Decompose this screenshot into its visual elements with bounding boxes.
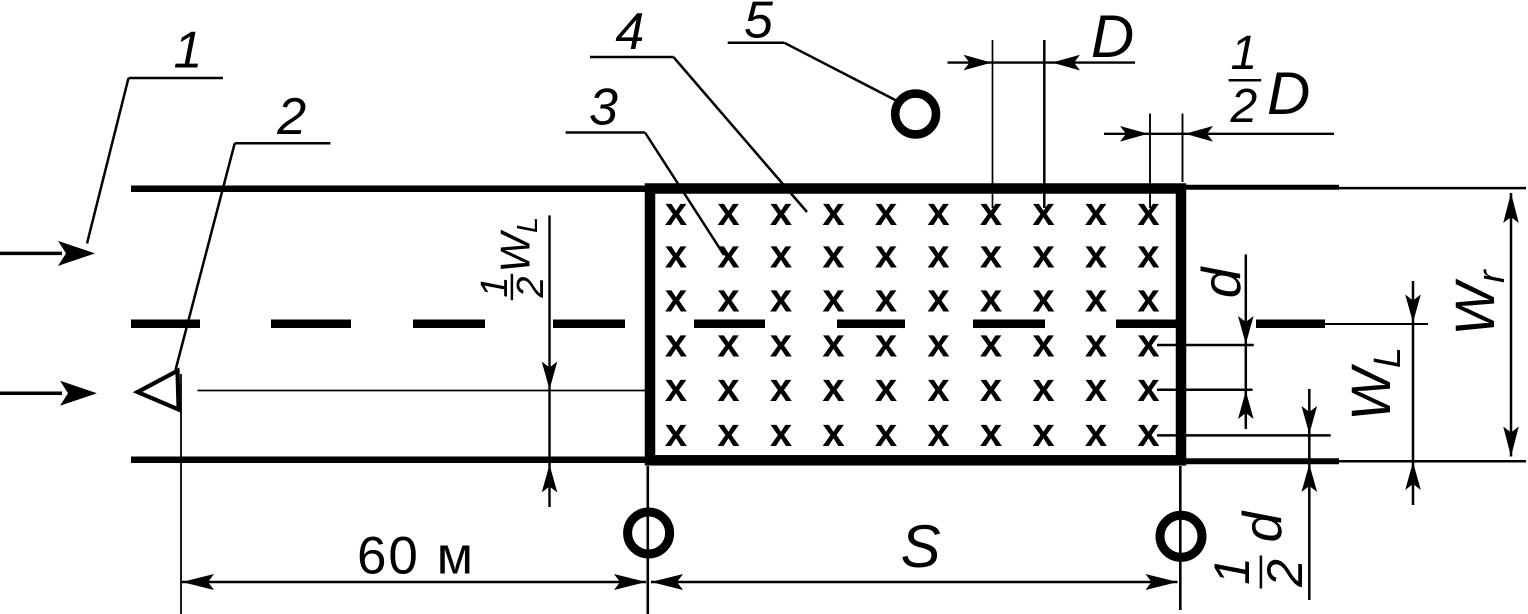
svg-text:x: x [770,233,792,277]
svg-text:x: x [980,411,1002,455]
svg-text:x: x [927,277,949,321]
dimension S line with arrows [651,574,1178,590]
svg-text:x: x [1032,411,1054,455]
svg-text:x: x [1085,411,1107,455]
svg-text:d: d [1190,265,1252,298]
svg-text:4: 4 [615,3,644,61]
svg-text:x: x [1032,366,1054,410]
svg-text:x: x [1137,190,1159,234]
svg-text:x: x [1137,322,1159,366]
dimension WL line with arrows [1405,281,1421,505]
svg-text:x: x [1137,233,1159,277]
svg-text:x: x [822,366,844,410]
callout 3 (measurement point) [566,79,724,255]
svg-text:x: x [1085,366,1107,410]
observer sight line [198,390,649,392]
dimension 1/2 WL line with arrows [542,215,558,507]
svg-text:x: x [927,366,949,410]
svg-text:x: x [875,233,897,277]
dimension 1/2 WL label [474,217,552,300]
luminaire circle (top) [895,94,936,135]
svg-text:1: 1 [1230,27,1257,80]
road top edge (left segment) [131,186,653,193]
dimension D label [1091,3,1134,70]
svg-text:2: 2 [276,88,306,146]
svg-text:x: x [1085,190,1107,234]
dimension 1/2 D line with arrows [1104,126,1334,142]
svg-text:x: x [665,411,687,455]
luminaire circle (bottom right) [1160,515,1202,557]
svg-text:1: 1 [1204,557,1260,585]
svg-text:x: x [980,190,1002,234]
svg-text:x: x [770,366,792,410]
extension line through bottom-right luminaire [1179,466,1182,610]
svg-text:D: D [1091,3,1134,70]
svg-text:x: x [1085,277,1107,321]
traffic direction arrow (lane 1) [0,241,95,266]
svg-text:1: 1 [174,22,203,80]
grid of measurement points (x marks) [665,190,1160,455]
dimension d line with arrows [1238,254,1254,429]
svg-text:x: x [665,190,687,234]
svg-text:2: 2 [1257,559,1313,588]
svg-text:x: x [927,233,949,277]
svg-text:x: x [770,322,792,366]
luminaire circle (bottom left) [628,512,670,554]
svg-text:x: x [717,277,739,321]
svg-text:x: x [875,277,897,321]
dimension WL label [1339,347,1409,421]
dimension Wr label [1443,269,1513,336]
svg-text:x: x [875,411,897,455]
svg-text:x: x [875,190,897,234]
svg-text:x: x [980,322,1002,366]
svg-text:x: x [927,411,949,455]
dimension d label [1190,265,1252,298]
callout 4 (measurement field) [590,3,807,212]
road bottom edge (left segment) [131,457,653,464]
svg-text:d: d [1231,510,1293,543]
svg-text:x: x [1085,233,1107,277]
svg-text:x: x [927,322,949,366]
svg-text:x: x [875,322,897,366]
dimension S label [901,513,941,580]
svg-text:x: x [717,233,739,277]
road bottom edge (right segment) [1180,458,1526,464]
svg-text:x: x [1137,366,1159,410]
road centerline (dashed lane marking) [131,320,1428,329]
svg-text:2: 2 [1229,80,1257,133]
svg-text:x: x [822,277,844,321]
svg-text:60 м: 60 м [357,527,475,586]
extension line through bottom-left luminaire [646,466,649,614]
svg-text:x: x [665,233,687,277]
svg-text:x: x [717,190,739,234]
dimension 60 m label [357,527,475,586]
svg-text:x: x [770,277,792,321]
svg-text:x: x [717,366,739,410]
callout 1 (traffic direction) [87,22,223,244]
dimension D extension lines [993,40,1045,208]
measurement field boundary [650,189,1181,461]
svg-text:x: x [1137,277,1159,321]
svg-text:x: x [980,277,1002,321]
dimension Wr line with arrows [1503,193,1519,457]
svg-text:x: x [927,190,949,234]
svg-text:x: x [980,366,1002,410]
dimension 1/2 d line with arrows [1302,389,1318,600]
svg-text:x: x [1137,411,1159,455]
svg-text:S: S [901,513,941,580]
svg-text:D: D [1267,60,1310,127]
svg-text:x: x [717,411,739,455]
extension lines from grid rows 4,5,6 [1157,345,1331,435]
svg-text:x: x [822,233,844,277]
svg-text:x: x [770,411,792,455]
svg-text:x: x [665,366,687,410]
svg-text:5: 5 [744,0,774,50]
svg-text:3: 3 [589,79,618,137]
road top edge (right segment) [1180,185,1526,191]
svg-text:x: x [665,277,687,321]
dimension 1/2 d label [1204,510,1313,589]
callout 5 (luminaire) [728,0,902,104]
svg-text:x: x [980,233,1002,277]
observer position triangle [138,371,179,410]
extension line at observer [180,374,182,614]
svg-text:x: x [1032,322,1054,366]
svg-text:x: x [1085,322,1107,366]
svg-text:x: x [1032,277,1054,321]
svg-text:x: x [770,190,792,234]
callout 2 (observer) [176,88,331,370]
svg-text:x: x [717,322,739,366]
svg-text:2: 2 [510,276,552,298]
dimension 1/2 D extension lines [1150,114,1183,209]
svg-text:x: x [822,322,844,366]
traffic direction arrow (lane 2) [0,381,97,406]
svg-text:x: x [665,322,687,366]
svg-text:x: x [1032,233,1054,277]
dimension D line with arrows [948,55,1136,71]
svg-text:x: x [822,411,844,455]
svg-text:x: x [822,190,844,234]
svg-text:x: x [875,366,897,410]
dimension 1/2 D label [1229,27,1311,133]
dimension 60 m line with arrows [182,574,646,590]
